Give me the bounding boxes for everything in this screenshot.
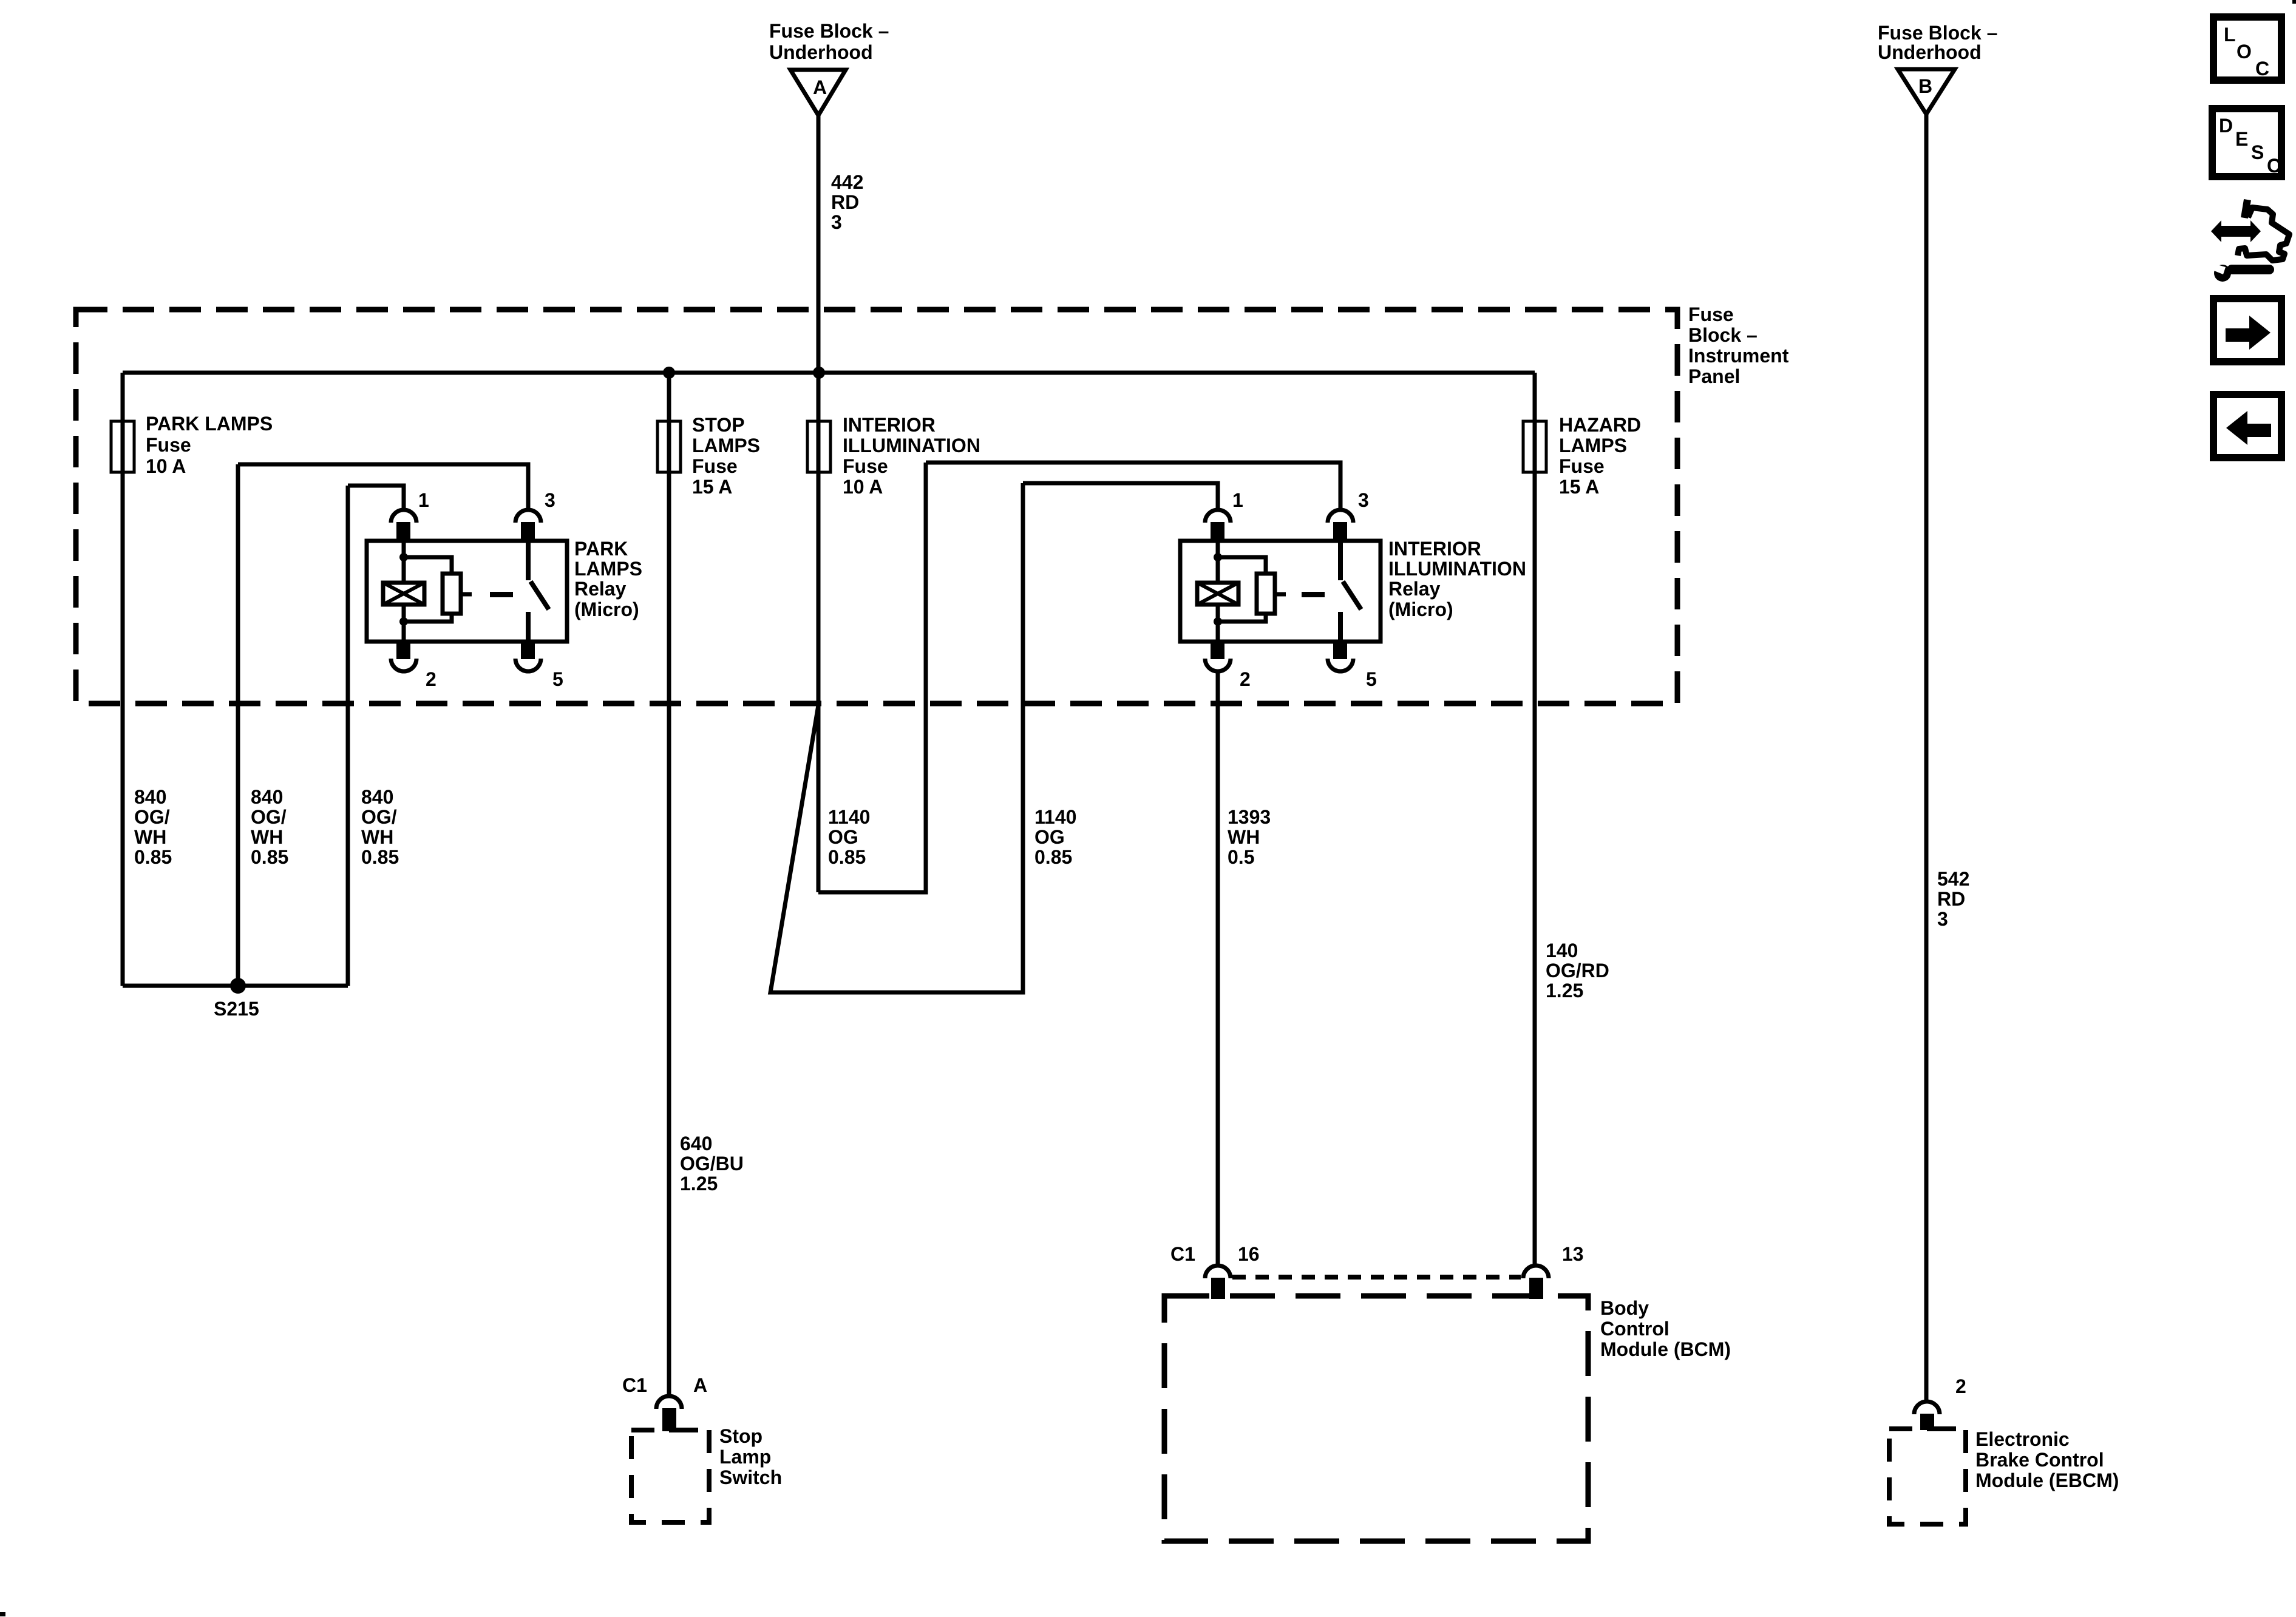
svg-text:Lamp: Lamp [719, 1446, 771, 1468]
svg-text:2: 2 [1240, 668, 1251, 690]
svg-text:(Micro): (Micro) [1388, 598, 1453, 620]
svg-text:0.85: 0.85 [828, 846, 866, 868]
svg-text:Fuse: Fuse [146, 434, 191, 456]
svg-text:C: C [2255, 58, 2269, 80]
svg-text:STOP: STOP [692, 414, 745, 436]
svg-text:Relay: Relay [574, 578, 627, 600]
svg-text:Body: Body [1600, 1297, 1649, 1319]
svg-text:A: A [693, 1374, 707, 1396]
svg-text:RD: RD [831, 191, 859, 213]
svg-text:OG/: OG/ [251, 806, 287, 828]
svg-text:D: D [2219, 115, 2233, 137]
svg-text:Brake Control: Brake Control [1975, 1449, 2104, 1471]
svg-text:442: 442 [831, 171, 863, 193]
svg-text:(Micro): (Micro) [574, 598, 639, 620]
svg-text:WH: WH [1228, 826, 1260, 848]
svg-text:PARK: PARK [574, 538, 628, 560]
svg-text:1: 1 [418, 489, 429, 511]
svg-text:Switch: Switch [719, 1466, 782, 1488]
svg-text:OG: OG [1034, 826, 1065, 848]
svg-text:0.85: 0.85 [134, 846, 172, 868]
svg-text:LAMPS: LAMPS [574, 558, 642, 580]
svg-text:0.5: 0.5 [1228, 846, 1254, 868]
svg-text:LAMPS: LAMPS [1559, 435, 1627, 456]
svg-text:ILLUMINATION: ILLUMINATION [843, 435, 980, 456]
svg-text:S: S [2251, 141, 2264, 163]
svg-text:Underhood: Underhood [769, 41, 873, 63]
svg-text:RD: RD [1937, 888, 1965, 910]
svg-text:C1: C1 [622, 1374, 647, 1396]
svg-text:542: 542 [1937, 868, 1969, 890]
svg-text:Fuse: Fuse [1688, 303, 1734, 325]
svg-text:0.85: 0.85 [361, 846, 399, 868]
svg-text:Relay: Relay [1388, 578, 1441, 600]
svg-text:Module (EBCM): Module (EBCM) [1975, 1470, 2119, 1491]
svg-text:Fuse Block –: Fuse Block – [1878, 22, 1997, 44]
svg-text:Block –: Block – [1688, 324, 1758, 346]
svg-text:Panel: Panel [1688, 365, 1740, 387]
svg-text:OG/BU: OG/BU [680, 1153, 744, 1175]
svg-text:1140: 1140 [1034, 806, 1076, 828]
svg-text:WH: WH [251, 826, 283, 848]
svg-text:1.25: 1.25 [1546, 980, 1583, 1002]
svg-text:L: L [2224, 24, 2236, 46]
svg-text:2: 2 [1955, 1375, 1966, 1397]
svg-text:O: O [2237, 41, 2252, 63]
svg-text:E: E [2235, 128, 2248, 150]
svg-text:HAZARD: HAZARD [1559, 414, 1641, 436]
svg-text:Control: Control [1600, 1318, 1669, 1340]
svg-text:1140: 1140 [828, 806, 870, 828]
svg-text:640: 640 [680, 1133, 712, 1154]
svg-text:840: 840 [251, 786, 283, 808]
svg-text:OG: OG [828, 826, 858, 848]
svg-text:3: 3 [1937, 908, 1948, 930]
svg-text:15 A: 15 A [1559, 476, 1599, 498]
svg-text:Fuse: Fuse [843, 455, 888, 477]
svg-text:1: 1 [1232, 489, 1243, 511]
svg-text:B: B [1918, 75, 1932, 97]
svg-text:Fuse Block –: Fuse Block – [769, 20, 889, 42]
svg-text:16: 16 [1238, 1243, 1260, 1265]
svg-text:5: 5 [1366, 668, 1377, 690]
svg-text:LAMPS: LAMPS [692, 435, 760, 456]
svg-text:840: 840 [134, 786, 166, 808]
svg-text:Instrument: Instrument [1688, 345, 1789, 367]
svg-text:C: C [2267, 155, 2281, 177]
svg-text:5: 5 [552, 668, 563, 690]
svg-text:ILLUMINATION: ILLUMINATION [1388, 558, 1526, 580]
svg-text:140: 140 [1546, 940, 1578, 961]
svg-text:3: 3 [1358, 489, 1369, 511]
svg-text:INTERIOR: INTERIOR [1388, 538, 1481, 560]
svg-text:Module (BCM): Module (BCM) [1600, 1338, 1731, 1360]
svg-text:WH: WH [134, 826, 166, 848]
svg-text:PARK LAMPS: PARK LAMPS [146, 413, 273, 435]
svg-text:3: 3 [831, 211, 842, 233]
svg-text:INTERIOR: INTERIOR [843, 414, 936, 436]
svg-text:Stop: Stop [719, 1425, 763, 1447]
svg-text:Fuse: Fuse [692, 455, 738, 477]
svg-text:1.25: 1.25 [680, 1173, 718, 1195]
svg-text:3: 3 [545, 489, 555, 511]
svg-text:0.85: 0.85 [1034, 846, 1072, 868]
svg-text:1393: 1393 [1228, 806, 1271, 828]
svg-text:Fuse: Fuse [1559, 455, 1605, 477]
svg-text:Electronic: Electronic [1975, 1428, 2070, 1450]
svg-text:13: 13 [1562, 1243, 1584, 1265]
svg-text:2: 2 [426, 668, 436, 690]
svg-text:WH: WH [361, 826, 393, 848]
svg-text:10 A: 10 A [146, 455, 186, 477]
svg-text:OG/RD: OG/RD [1546, 960, 1609, 981]
svg-text:OG/: OG/ [134, 806, 170, 828]
svg-text:0.85: 0.85 [251, 846, 288, 868]
svg-text:S215: S215 [214, 998, 259, 1020]
svg-text:C1: C1 [1170, 1243, 1195, 1265]
svg-text:A: A [813, 76, 827, 98]
svg-text:OG/: OG/ [361, 806, 397, 828]
svg-text:840: 840 [361, 786, 393, 808]
svg-text:15 A: 15 A [692, 476, 732, 498]
svg-text:Underhood: Underhood [1878, 41, 1982, 63]
svg-text:10 A: 10 A [843, 476, 883, 498]
